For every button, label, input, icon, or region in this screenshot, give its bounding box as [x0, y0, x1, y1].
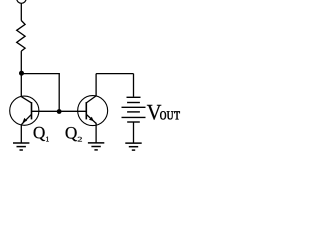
ground under Q1	[13, 143, 29, 150]
wire middle vertical down to bases	[58, 74, 60, 112]
wire Q1 emitter to ground	[20, 125, 22, 143]
transistor Q1	[10, 96, 39, 125]
wire resistor down to Q1 collector	[20, 51, 22, 97]
label V_OUT	[147, 105, 161, 120]
ground under battery	[125, 143, 141, 150]
wire terminal to resistor	[20, 3, 22, 20]
node: collector/base junction dot	[19, 71, 24, 76]
node: base junction dot	[57, 109, 62, 114]
wire down to battery	[133, 74, 135, 97]
resistor R	[17, 21, 25, 52]
label Q2	[66, 127, 77, 141]
wire Q1 base to Q2 base	[32, 110, 87, 112]
wire junction to middle corner	[21, 73, 60, 75]
wire Q2 emitter to ground	[95, 123, 97, 143]
wire collector to battery corner	[96, 73, 133, 75]
wire Q2 collector up	[95, 74, 97, 96]
transistor Q2	[78, 96, 108, 126]
wire battery to ground	[133, 122, 135, 143]
input terminal	[17, 0, 26, 3]
ground under Q2	[88, 143, 104, 150]
label Q1	[34, 127, 45, 141]
battery V_OUT	[122, 97, 146, 122]
